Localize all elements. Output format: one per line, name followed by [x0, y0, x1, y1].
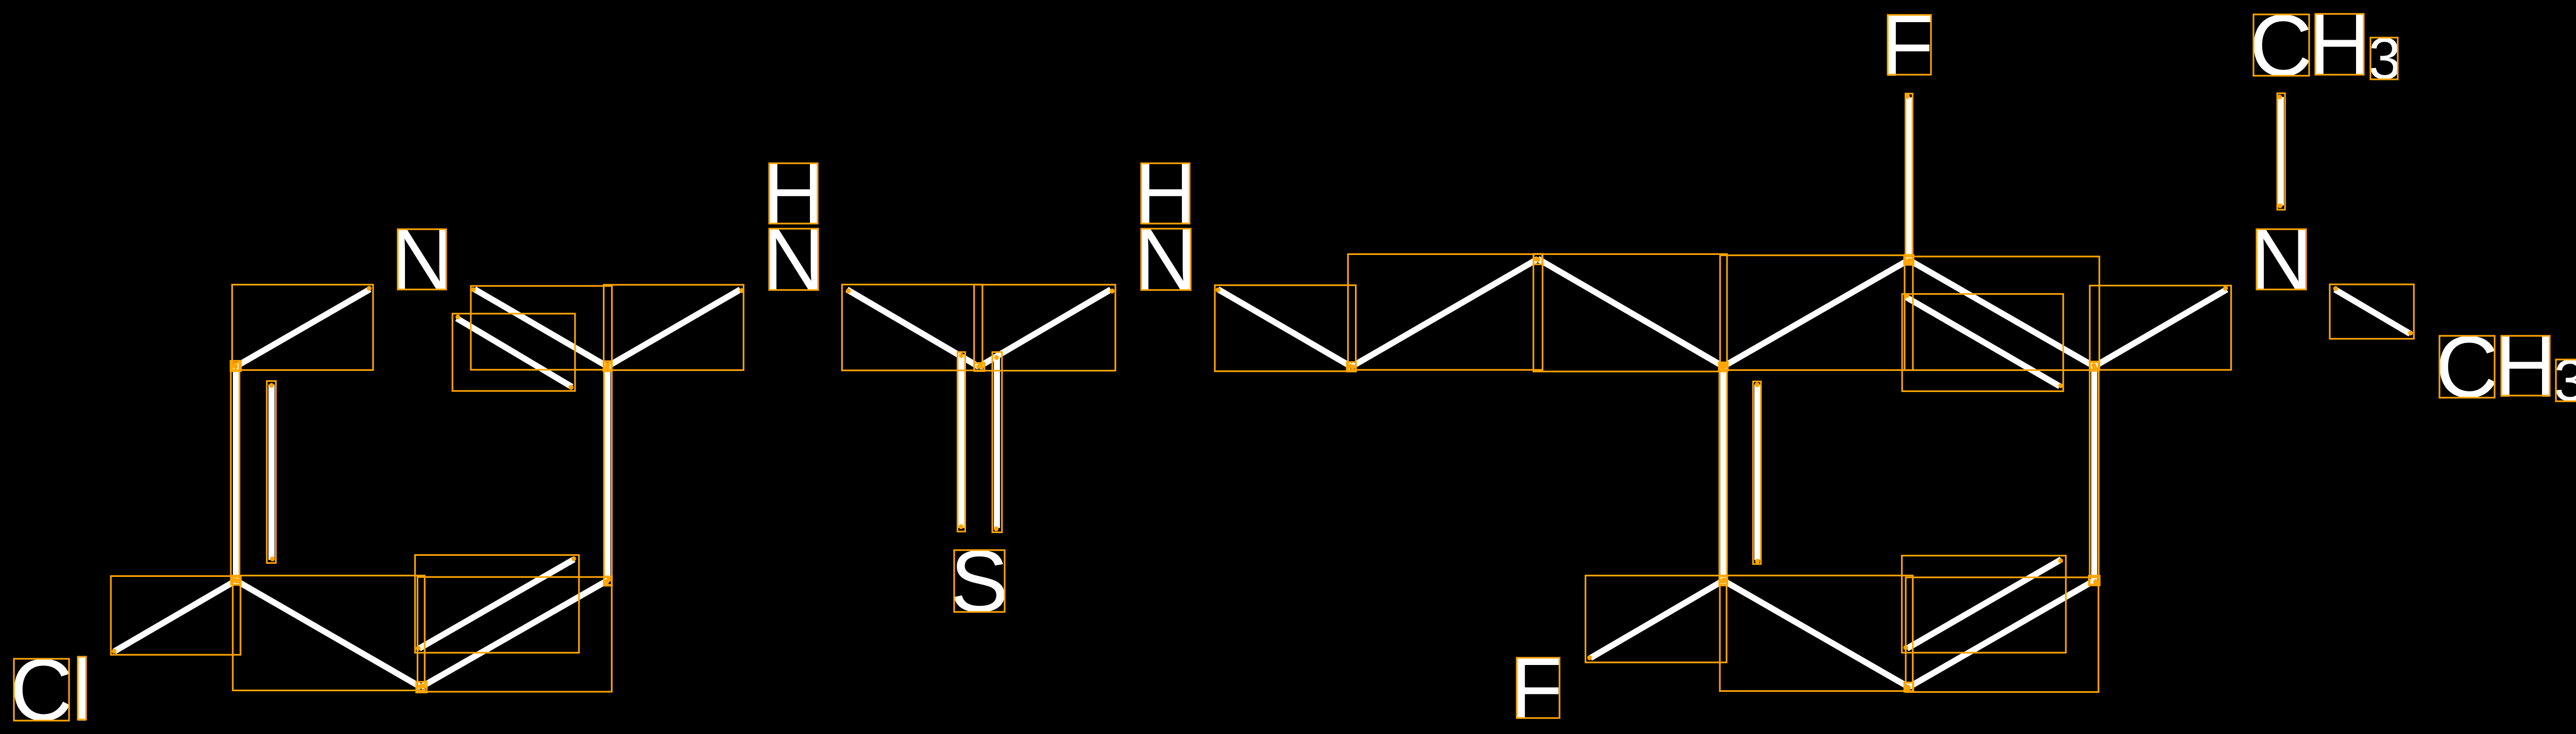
- bond qC5=qC4 inner : endpoint markers: [1903, 558, 2063, 650]
- bond rC2-N1H : endpoint markers: [605, 288, 744, 367]
- atom label F top : text: [1880, 0, 1934, 95]
- bond qC2=qC3 inner : endpoint markers: [1904, 293, 2063, 388]
- atom qC3 : annotation box: [2090, 362, 2098, 371]
- bond qC5=qC4 main : annotation box: [1906, 577, 2098, 692]
- atom Cthio : annotation box: [974, 363, 985, 371]
- svg-text:N: N: [762, 211, 825, 309]
- bond Cthio=S right : annotation box: [992, 352, 1002, 533]
- bond qC2=qC3 inner : line: [1906, 297, 2060, 386]
- bond CH2a-CH2b : line: [1351, 259, 1538, 367]
- bond rC6-rN : line: [236, 289, 370, 367]
- bond qC2=qC3 main : endpoint markers: [1907, 258, 2097, 370]
- atom label F top : annotation boxes: [1888, 15, 1931, 75]
- atom rC4 : annotation box: [416, 682, 427, 693]
- bond rC6-rN : endpoint markers: [233, 286, 371, 369]
- atom label CH3 right : text: [2435, 318, 2576, 416]
- bond rC6=rC5 main : endpoint markers: [233, 363, 240, 584]
- bond Cthio=S left : endpoint markers: [959, 353, 964, 530]
- atom label HN left : text: [762, 145, 825, 309]
- bond rC5-rC4 : endpoint markers: [234, 578, 425, 688]
- bond qC2=qC3 main : annotation box: [1905, 257, 2099, 370]
- atom qC1 : annotation box: [1719, 362, 1728, 370]
- atom label Cl : text: [10, 641, 92, 734]
- bond N2H-CH2a : annotation box: [1215, 285, 1356, 371]
- svg-text:3: 3: [2368, 26, 2401, 92]
- bond N2H-CH2a : endpoint markers: [1216, 287, 1353, 368]
- bond qC2-Ftop : annotation box: [1906, 94, 1913, 264]
- bond Cthio=S right : endpoint markers: [994, 355, 999, 531]
- bond rN=rC2 inner : line: [457, 318, 572, 387]
- bond qC6-Fbot : endpoint markers: [1587, 579, 1725, 660]
- atom rC5 : annotation box: [232, 577, 241, 585]
- bond CH2b-qC1 : line: [1538, 259, 1723, 367]
- atom label S thione : annotation boxes: [954, 550, 1005, 612]
- bond qC6-qC5 : line: [1723, 581, 1909, 687]
- bond rC3-rC2 : annotation box: [604, 363, 612, 585]
- atom qC6 : annotation box: [1719, 576, 1727, 585]
- bond rC4=rC3 inner : endpoint markers: [416, 556, 576, 651]
- bond qC1=qC6 inner : endpoint markers: [1755, 382, 1760, 564]
- bond CH2a-CH2b : annotation box: [1348, 254, 1543, 370]
- bond rC4=rC3 inner : line: [419, 559, 574, 648]
- bond qC4-qC3 : line: [2091, 367, 2097, 581]
- atom label N amine : annotation boxes: [2257, 229, 2306, 289]
- bond N1H-Cthio : annotation box: [842, 284, 982, 370]
- svg-text:N: N: [1134, 211, 1197, 309]
- bond rC6-rN : annotation box: [232, 285, 373, 370]
- bond Namine-CH3rt : endpoint markers: [2333, 286, 2413, 336]
- atom label CH3 top : annotation boxes: [2253, 14, 2398, 79]
- bond rC3-rC2 : endpoint markers: [604, 365, 610, 584]
- bond rN=rC2 main : line: [474, 289, 607, 367]
- bond Cthio-N2H : line: [979, 289, 1111, 367]
- bond rC4=rC3 main : endpoint markers: [418, 577, 611, 689]
- bond qC5=qC4 inner : line: [1907, 559, 2062, 648]
- bond rC5-Cl : line: [114, 581, 236, 652]
- bond qC2-qC1 : endpoint markers: [1720, 258, 1912, 368]
- bond qC6-qC5 : annotation box: [1720, 575, 1913, 691]
- bond qC3-Namine : line: [2094, 289, 2227, 367]
- svg-text:3: 3: [2554, 348, 2576, 414]
- bond N2H-CH2a : line: [1218, 289, 1351, 367]
- bond qC3-Namine : annotation box: [2090, 285, 2231, 370]
- bond rC6=rC5 inner : endpoint markers: [269, 383, 275, 561]
- bond rN=rC2 inner : annotation box: [452, 314, 575, 391]
- bond rC2-N1H : annotation box: [604, 285, 743, 370]
- bond qC4-qC3 : annotation box: [2090, 362, 2099, 585]
- atom label Cl : annotation boxes: [14, 657, 86, 721]
- atom label N amine : text: [2249, 211, 2313, 309]
- atom label CH3 right : annotation boxes: [2439, 336, 2576, 401]
- bond rC4=rC3 main : line: [421, 581, 607, 687]
- bond qC1=qC6 main : line: [1720, 367, 1726, 581]
- bond Namine-CH3top : endpoint markers: [2277, 95, 2282, 209]
- bond rC4=rC3 main : annotation box: [417, 577, 612, 692]
- atom label F bottom : text: [1510, 640, 1563, 734]
- bond qC6-Fbot : line: [1590, 581, 1723, 658]
- atom label HN left : annotation boxes: [769, 163, 818, 290]
- atom label F bottom : annotation boxes: [1517, 658, 1560, 718]
- bond qC4-qC3 : endpoint markers: [2092, 363, 2098, 584]
- bond qC2-qC1 : annotation box: [1720, 255, 1913, 370]
- bond Namine-CH3top : line: [2278, 97, 2284, 206]
- bond qC1=qC6 inner : line: [1754, 385, 1760, 560]
- bond rN=rC2 main : endpoint markers: [471, 287, 609, 370]
- atom CH2b : annotation box: [1534, 254, 1543, 264]
- bond N1H-Cthio : line: [847, 289, 979, 367]
- bond qC2-Ftop : line: [1906, 97, 1912, 260]
- bond qC1=qC6 inner : annotation box: [1753, 382, 1761, 565]
- bond qC1=qC6 main : endpoint markers: [1721, 363, 1727, 583]
- atom label S thione : text: [950, 533, 1008, 630]
- bond qC2-Ftop : endpoint markers: [1905, 94, 1910, 264]
- atom label HN right : annotation boxes: [1141, 163, 1191, 290]
- svg-text:C: C: [2435, 318, 2499, 416]
- bond rC5-rC4 : annotation box: [233, 575, 425, 690]
- bond Cthio=S left : annotation box: [958, 352, 965, 532]
- bond rC3-rC2 : line: [604, 367, 611, 581]
- bond qC2=qC3 main : line: [1909, 260, 2094, 367]
- atom label N ring1 : annotation boxes: [398, 229, 446, 289]
- bond qC1=qC6 main : annotation box: [1719, 363, 1727, 586]
- bond rN=rC2 main : annotation box: [471, 286, 612, 370]
- bond qC2=qC3 inner : annotation box: [1902, 294, 2063, 391]
- bond rC6=rC5 main : line: [233, 367, 239, 581]
- bond Namine-CH3rt : line: [2335, 289, 2410, 334]
- svg-text:H: H: [2494, 318, 2557, 416]
- bond Namine-CH3top : annotation box: [2277, 93, 2285, 210]
- bond qC5=qC4 main : endpoint markers: [1905, 579, 2098, 689]
- atom rC3 : annotation box: [604, 576, 612, 586]
- bond CH2b-qC1 : annotation box: [1533, 254, 1727, 371]
- bond Cthio=S left : line: [958, 356, 964, 528]
- bond rC2-N1H : line: [607, 289, 740, 367]
- atom label N ring1 : text: [391, 211, 454, 309]
- bond rC4=rC3 inner : annotation box: [415, 555, 579, 653]
- bond Cthio-N2H : annotation box: [974, 285, 1115, 371]
- bond Namine-CH3rt : annotation box: [2330, 284, 2414, 339]
- bond N1H-Cthio : endpoint markers: [846, 288, 982, 368]
- svg-text:N: N: [391, 211, 454, 309]
- bond qC5=qC4 main : line: [1909, 581, 2094, 687]
- bond rC5-rC4 : line: [236, 581, 421, 687]
- bond CH2b-qC1 : endpoint markers: [1534, 257, 1726, 370]
- bond qC5=qC4 inner : annotation box: [1902, 556, 2066, 653]
- bond CH2a-CH2b : endpoint markers: [1350, 257, 1540, 369]
- bond Cthio-N2H : endpoint markers: [976, 288, 1114, 369]
- atom label CH3 top : text: [2249, 0, 2401, 95]
- bond Cthio=S right : line: [994, 356, 1000, 528]
- bond qC2-qC1 : line: [1723, 260, 1909, 367]
- bond qC3-Namine : endpoint markers: [2092, 286, 2228, 370]
- atom rC2 : annotation box: [603, 361, 611, 371]
- svg-text:N: N: [2249, 211, 2313, 309]
- atom CH2a : annotation box: [1347, 362, 1356, 371]
- bond rC6=rC5 inner : annotation box: [267, 381, 276, 563]
- bond rC5-Cl : endpoint markers: [112, 578, 237, 654]
- bond qC6-qC5 : endpoint markers: [1721, 577, 1910, 690]
- atom label HN right : text: [1134, 145, 1197, 309]
- bond rN=rC2 inner : endpoint markers: [455, 315, 573, 390]
- bond qC6-Fbot : annotation box: [1585, 575, 1726, 662]
- bond rC5-Cl : annotation box: [111, 576, 241, 655]
- atom rC6 : annotation box: [230, 361, 241, 371]
- atom qC4 : annotation box: [2089, 576, 2100, 586]
- atom qC5 : annotation box: [1904, 682, 1913, 692]
- atom qC2 : annotation box: [1904, 255, 1913, 265]
- svg-text:S: S: [950, 533, 1008, 630]
- bond rC6=rC5 inner : line: [268, 385, 275, 560]
- bond rC6=rC5 main : annotation box: [231, 363, 240, 585]
